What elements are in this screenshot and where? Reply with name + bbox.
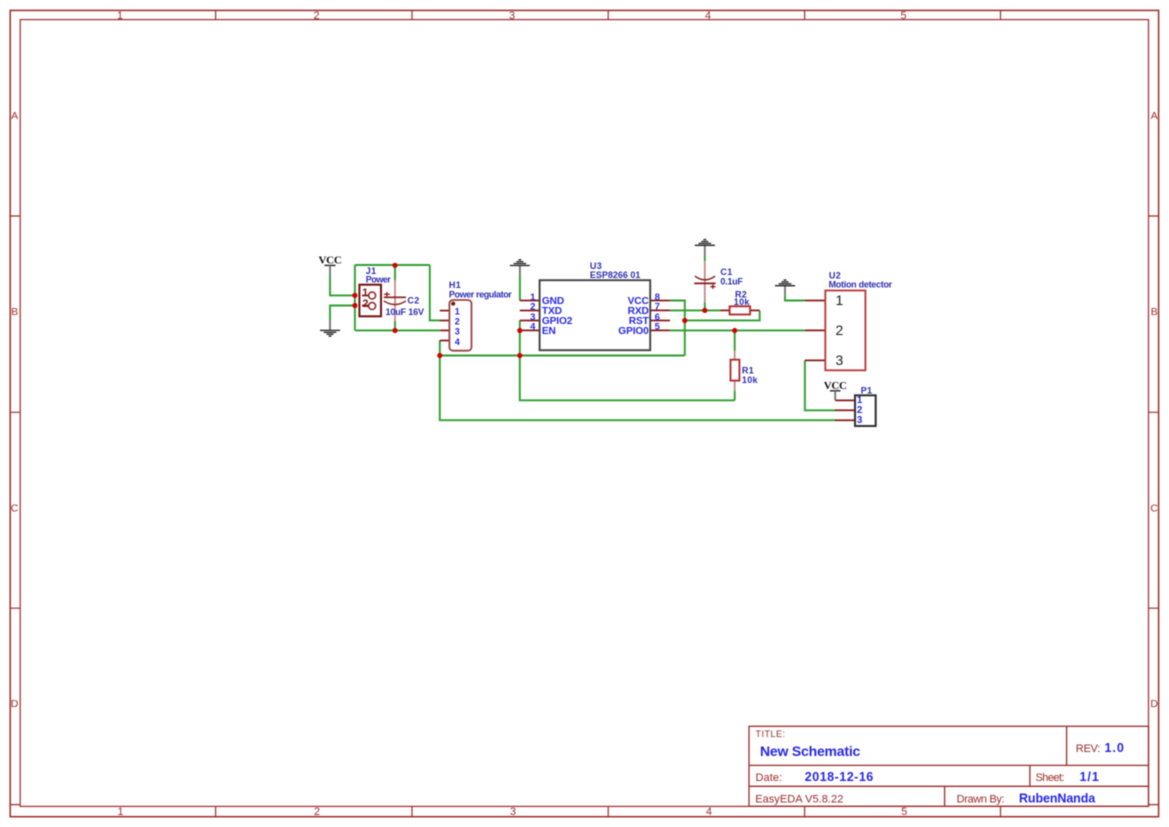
wire J1 pin2 row to ground (330, 306, 355, 321)
wire U3 RXD pin7 to R2 left (670, 309, 720, 311)
svg-text:5: 5 (655, 322, 661, 333)
svg-text:3: 3 (509, 10, 515, 22)
capacitor C2 (polarized) (384, 292, 406, 305)
ground symbol (below J1) (320, 320, 340, 336)
frame row ticks left (10, 216, 20, 805)
lead C2 top (394, 280, 396, 297)
svg-text:C: C (1150, 503, 1158, 515)
pin U3 pin8 VCC (650, 300, 670, 302)
svg-text:C2: C2 (407, 296, 419, 306)
capacitor C1 (polarized, flipped) (694, 276, 715, 289)
svg-text:1.0: 1.0 (1105, 741, 1125, 755)
lead R1 bottom (734, 381, 736, 391)
svg-text:0.1uF: 0.1uF (720, 276, 743, 286)
junction net355 left vertical (517, 353, 522, 358)
pin J1 pin1 stub (362, 295, 369, 297)
wire loop bottom J1 to H1 pin3 (355, 329, 440, 331)
svg-text:B: B (11, 306, 18, 318)
svg-text:2: 2 (836, 322, 844, 338)
frame column ticks top (216, 10, 1001, 19)
svg-text:D: D (11, 698, 19, 710)
pin H1 pin1 (440, 310, 450, 312)
pin H1 pin4 (440, 340, 450, 342)
svg-text:2018-12-16: 2018-12-16 (805, 770, 874, 784)
junction C2 bottom (392, 328, 397, 333)
svg-text:D: D (1150, 698, 1158, 710)
wire U2 pin3 down to P1 pin2 (805, 360, 836, 410)
pin U2 pin1 (805, 300, 825, 302)
svg-text:2: 2 (455, 317, 460, 327)
lead C1 top (704, 261, 706, 284)
wire R2 right loop back to RST junction (685, 311, 760, 321)
frame row ticks right (1149, 216, 1159, 805)
power symbol VCC (left) (319, 254, 342, 275)
svg-text:New Schematic: New Schematic (760, 743, 861, 759)
svg-text:5: 5 (900, 10, 906, 22)
svg-text:Power: Power (366, 275, 392, 285)
svg-text:C1: C1 (720, 267, 732, 277)
svg-text:EasyEDA V5.8.22: EasyEDA V5.8.22 (755, 794, 843, 806)
wire U3 GND pin stub from ground (519, 275, 521, 300)
wire loop right J1 to H1 pin2 (430, 265, 440, 320)
junction J1 pin2 (352, 303, 357, 308)
ground symbol (above C1) (695, 240, 715, 256)
pin U2 pin2 (805, 329, 825, 331)
pin U3 pin1 GND (520, 300, 540, 302)
svg-text:10uF 16V: 10uF 16V (386, 307, 424, 317)
lead C2 bottom (394, 298, 396, 321)
module U2 motion detector (825, 291, 865, 371)
pin U3 pin7 RXD (650, 309, 670, 311)
svg-text:1: 1 (836, 292, 844, 308)
wire C2 top stub (394, 265, 396, 280)
pin H1 pin2 (440, 320, 450, 322)
svg-text:B: B (1151, 306, 1158, 318)
frame column labels bottom (117, 806, 907, 818)
svg-text:Power regulator: Power regulator (449, 289, 512, 299)
pin U2 pin3 (805, 359, 825, 361)
svg-text:1: 1 (117, 806, 123, 818)
junction C1 bottom (702, 308, 707, 313)
wire U3 VCC pin8 right and down (670, 301, 685, 356)
svg-text:C: C (11, 503, 19, 515)
svg-text:3: 3 (510, 806, 516, 818)
wire VCC to J1 pin1 row (330, 275, 355, 295)
svg-text:3: 3 (836, 352, 844, 368)
wire C1 lower stub (704, 303, 706, 311)
svg-text:TITLE:: TITLE: (756, 729, 786, 739)
wire U2 pin1 from ground (785, 295, 805, 301)
resistor R1 (731, 360, 740, 381)
pin U3 pin4 EN (520, 329, 540, 331)
svg-text:A: A (11, 110, 18, 122)
pin H1 pin3 (440, 329, 449, 331)
svg-text:REV:: REV: (1076, 743, 1100, 755)
pin P1 pin2 (835, 409, 855, 411)
wire H1 pin4 down and long bottom wire to P1 pin3 (440, 341, 836, 421)
junction J1 pin1 (352, 293, 357, 298)
frame column labels top (117, 10, 907, 22)
pin U3 pin3 GPIO2 (520, 320, 540, 322)
pin P1 pin3 (835, 419, 855, 421)
wire C1 upper stub (704, 256, 706, 261)
wire loop left J1 (354, 265, 356, 330)
svg-text:2: 2 (362, 298, 368, 310)
junction R1 top (732, 328, 737, 333)
svg-text:RubenNanda: RubenNanda (1019, 792, 1096, 806)
wire U3 GPIO0 pin5 to U2 pin2 (670, 329, 805, 331)
svg-text:1: 1 (455, 306, 460, 316)
svg-text:GPIO0: GPIO0 (618, 326, 649, 337)
wire R1 top stub (734, 331, 736, 351)
connector P1 (855, 395, 876, 426)
header H1 (449, 300, 471, 351)
junction RST net (682, 318, 687, 323)
IC U3 ESP8266 (530, 280, 660, 350)
resistor R2 (730, 306, 751, 314)
frame row labels left (11, 110, 19, 710)
pin U3 pin5 GPIO0 (650, 329, 670, 331)
power symbol VCC (at P1) (824, 380, 847, 400)
frame column ticks bottom (216, 806, 1001, 816)
wire C2 bottom stub (394, 321, 396, 331)
pin R2 left lead (720, 309, 729, 311)
wire net355 H1 area to U3 right vertical (440, 355, 685, 357)
wire R1 bottom stub (734, 391, 736, 401)
svg-text:4: 4 (455, 337, 460, 347)
svg-text:VCC: VCC (319, 254, 342, 266)
svg-text:5: 5 (901, 806, 907, 818)
pin P1 pin1 (835, 399, 855, 401)
junction H1 pin4 net (437, 353, 442, 358)
svg-text:2: 2 (314, 806, 320, 818)
svg-text:ESP8266 01: ESP8266 01 (590, 270, 641, 280)
pin U3 pin6 RST (650, 320, 670, 322)
svg-text:1/1: 1/1 (1080, 770, 1100, 784)
lead R1 top (734, 351, 736, 360)
ground symbol (above U3 pin1) (510, 260, 530, 276)
lead C1 bottom (704, 283, 706, 302)
svg-text:EN: EN (542, 326, 556, 337)
pin J1 pin2 stub (362, 305, 369, 307)
svg-text:4: 4 (530, 322, 536, 333)
svg-text:10k: 10k (742, 375, 759, 385)
ground symbol (at U2 pin1) (775, 280, 795, 295)
svg-text:Drawn By:: Drawn By: (957, 794, 1005, 806)
svg-text:4: 4 (706, 806, 712, 818)
svg-text:4: 4 (705, 10, 711, 22)
svg-text:P1: P1 (861, 386, 873, 396)
svg-text:3: 3 (455, 327, 460, 337)
svg-text:A: A (1151, 110, 1158, 122)
pin U3 pin2 TXD (520, 310, 540, 312)
junction U3 EN (517, 328, 522, 333)
wire loop top J1 (355, 264, 430, 266)
svg-text:3: 3 (857, 415, 863, 426)
svg-text:Date:: Date: (756, 772, 783, 784)
svg-text:2: 2 (313, 10, 319, 22)
wire U3 GPIO2/EN vertical down to R1 bottom wire (520, 320, 735, 400)
svg-text:Motion detector: Motion detector (829, 279, 893, 289)
svg-text:Sheet:: Sheet: (1036, 772, 1065, 784)
junction C2 top (392, 263, 397, 268)
svg-text:10k: 10k (734, 297, 751, 307)
frame row labels right (1150, 110, 1158, 710)
svg-text:1: 1 (117, 10, 123, 22)
connector J1 (359, 285, 381, 317)
pin R2 right lead (750, 309, 760, 311)
title block (749, 726, 1149, 806)
